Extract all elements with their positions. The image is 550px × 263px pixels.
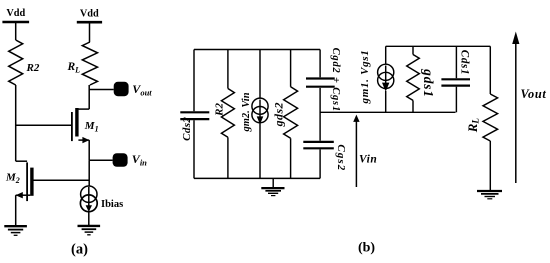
svg-text:Vdd: Vdd — [80, 8, 99, 19]
svg-text:gds2: gds2 — [271, 102, 285, 127]
svg-text:gds1: gds1 — [421, 68, 436, 98]
svg-text:(b): (b) — [358, 241, 375, 256]
svg-text:Vin: Vin — [359, 153, 377, 165]
svg-text:gm2. Vin: gm2. Vin — [241, 92, 252, 132]
svg-text:R2: R2 — [213, 102, 225, 116]
svg-text:Ibias: Ibias — [101, 199, 123, 210]
svg-text:Cgd2 + Cgs1: Cgd2 + Cgs1 — [330, 48, 341, 112]
svg-text:Cgs2: Cgs2 — [335, 144, 347, 171]
svg-text:Cds1: Cds1 — [459, 50, 471, 75]
svg-text:Vdd: Vdd — [6, 8, 25, 19]
svg-text:(a): (a) — [71, 242, 88, 258]
svg-text:R2: R2 — [26, 62, 40, 74]
svg-text:Vout: Vout — [521, 87, 547, 101]
svg-text:Cds2: Cds2 — [181, 117, 193, 141]
svg-text:gm1. Vgs1: gm1. Vgs1 — [359, 50, 371, 105]
